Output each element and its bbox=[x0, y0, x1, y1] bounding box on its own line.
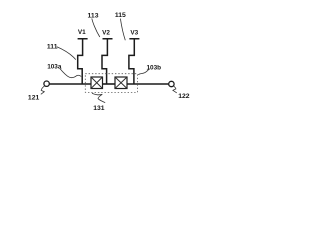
leader line 131 bbox=[92, 93, 105, 103]
leader line 113 bbox=[92, 18, 100, 37]
leader squiggle 121 bbox=[41, 86, 45, 95]
svg-text:121: 121 bbox=[28, 95, 40, 102]
svg-text:V2: V2 bbox=[102, 29, 110, 36]
wire segment left (103a) bbox=[49, 83, 91, 85]
leader line 115 bbox=[120, 19, 125, 41]
svg-text:113: 113 bbox=[88, 12, 99, 19]
wire segment middle bbox=[103, 83, 116, 85]
terminal 122 bbox=[169, 81, 174, 86]
leader line 103b bbox=[138, 69, 149, 75]
svg-text:V1: V1 bbox=[78, 29, 86, 36]
leader squiggle 122 bbox=[173, 86, 177, 93]
svg-text:103b: 103b bbox=[147, 65, 162, 72]
svg-text:131: 131 bbox=[93, 105, 105, 112]
electrode V1 (T-bar with offset segment) bbox=[78, 39, 88, 84]
svg-text:122: 122 bbox=[178, 93, 190, 100]
electrode V2 (T-bar with offset segment) bbox=[102, 39, 113, 84]
svg-text:103a: 103a bbox=[47, 64, 62, 71]
svg-text:111: 111 bbox=[47, 43, 58, 50]
svg-text:115: 115 bbox=[115, 12, 126, 19]
resonator box left bbox=[91, 77, 103, 89]
leader line 103a bbox=[60, 68, 81, 77]
terminal 121 bbox=[44, 81, 49, 86]
resonator box right bbox=[115, 77, 127, 89]
dashed enclosure 131 bbox=[85, 74, 137, 93]
svg-text:V3: V3 bbox=[130, 29, 138, 36]
leader line 111 bbox=[57, 47, 76, 60]
wire segment right (103b) bbox=[127, 83, 169, 85]
electrode V3 (T-bar with offset segment) bbox=[129, 39, 140, 84]
